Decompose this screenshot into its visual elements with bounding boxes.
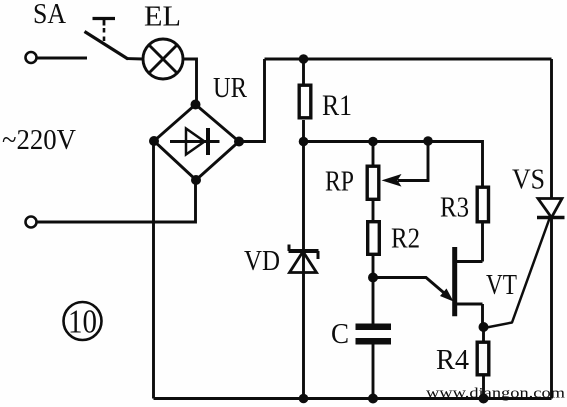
wire B1 to gate node <box>481 304 484 327</box>
label RP <box>325 166 354 198</box>
terminal bottom-left <box>26 217 37 228</box>
transistor VT (UJT) <box>455 247 483 316</box>
svg-text:www.diangon.com: www.diangon.com <box>426 386 565 402</box>
wire R1 top lead <box>302 59 305 84</box>
label VT <box>486 269 517 301</box>
label SA <box>33 0 66 30</box>
resistor R4 <box>477 342 489 375</box>
svg-text:~220V: ~220V <box>2 125 76 156</box>
wire bottom terminal to bridge bottom <box>37 181 196 223</box>
node bridge bottom <box>191 175 201 185</box>
wire capacitor top lead <box>372 278 375 324</box>
label R2 <box>391 223 420 255</box>
svg-text:C: C <box>331 318 349 350</box>
node bridge right <box>234 137 244 147</box>
svg-text:VD: VD <box>244 245 280 277</box>
terminal top-left <box>26 52 37 63</box>
svg-text:UR: UR <box>213 72 248 104</box>
wire R4 bottom lead <box>482 376 485 399</box>
wire bridge left to bottom rail <box>152 141 155 399</box>
node RP wiper top <box>423 136 433 146</box>
wire lamp to bridge top <box>183 59 197 105</box>
wire VS gate <box>484 219 550 329</box>
label C <box>331 318 349 350</box>
figure number 10 <box>64 302 102 341</box>
zener diode VD <box>289 245 319 273</box>
wire R4 top lead <box>482 327 485 341</box>
label R4 <box>436 344 469 376</box>
svg-text:R4: R4 <box>436 344 469 376</box>
capacitor C <box>356 324 392 345</box>
node C bottom <box>368 394 378 404</box>
wire R2 bottom lead <box>372 256 375 278</box>
node R1 top <box>299 54 309 64</box>
node gate junction <box>479 322 489 332</box>
svg-text:VT: VT <box>486 269 517 301</box>
svg-text:R1: R1 <box>322 89 352 122</box>
wire capacitor bottom lead <box>372 345 375 399</box>
node bridge top <box>191 100 201 110</box>
watermark <box>426 386 565 402</box>
resistor R1 <box>299 85 311 118</box>
wire switch to lamp <box>127 57 143 60</box>
svg-text:SA: SA <box>33 0 66 30</box>
svg-text:EL: EL <box>144 1 181 33</box>
label EL <box>144 1 181 33</box>
svg-text:RP: RP <box>325 166 354 198</box>
node RP top <box>368 137 378 147</box>
node R4 bottom <box>479 394 489 404</box>
bridge rectifier UR <box>154 105 239 181</box>
potentiometer RP <box>367 141 428 199</box>
node R1 bottom <box>299 137 309 147</box>
node VD bottom <box>299 394 309 404</box>
node bridge left <box>149 136 159 146</box>
wire VD column <box>302 142 305 399</box>
svg-text:R2: R2 <box>391 223 420 255</box>
wire VS cathode <box>550 218 553 399</box>
label R3 <box>440 192 469 224</box>
lamp EL <box>143 39 183 79</box>
wire B2 to R3 <box>481 224 484 262</box>
wire RP to R2 <box>372 200 375 221</box>
label VS <box>512 164 545 196</box>
node E junction <box>368 273 378 283</box>
wire R1 bottom lead <box>302 120 305 142</box>
wire VS anode <box>550 59 553 199</box>
thyristor VS <box>537 199 565 218</box>
label R1 <box>322 89 352 122</box>
label UR <box>213 72 248 104</box>
wire bottom rail <box>154 397 552 400</box>
wire terminal to switch <box>37 57 88 60</box>
switch SA <box>85 19 129 60</box>
resistor R3 <box>477 187 488 222</box>
svg-text:R3: R3 <box>440 192 469 224</box>
wire top rail <box>265 58 552 61</box>
resistor R2 <box>368 222 380 255</box>
wire emitter <box>373 278 454 302</box>
wire RP top lead <box>372 142 375 166</box>
wire mid rail <box>304 142 483 187</box>
label ~220V <box>2 125 76 156</box>
label VD <box>244 245 280 277</box>
wire bridge right to riser <box>239 59 265 142</box>
svg-text:VS: VS <box>512 164 545 196</box>
svg-text:10: 10 <box>68 304 97 341</box>
